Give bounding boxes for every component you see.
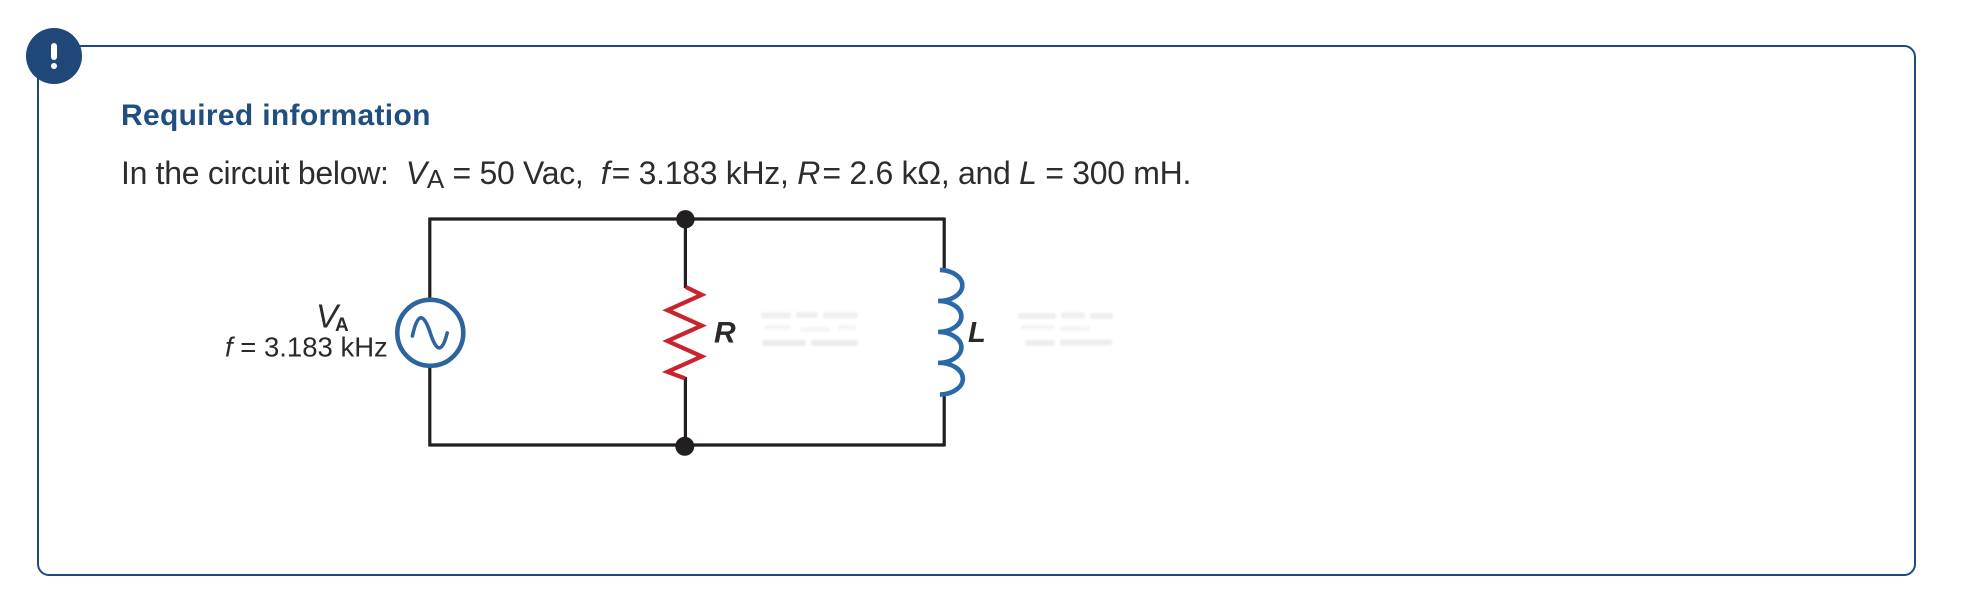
label VA [316, 298, 349, 337]
wire middle upper [684, 219, 687, 288]
problem text [121, 157, 1191, 189]
svg-text:R: R [714, 317, 736, 350]
ghost text right of R middle specks [765, 325, 856, 332]
svg-text:f = 3.183 kHz: f = 3.183 kHz [225, 332, 388, 363]
ghost text right of L row1 [1018, 313, 1113, 320]
ac source sine wave [412, 318, 447, 348]
ghost text right of L row2 [1021, 325, 1090, 331]
node bottom junction [675, 437, 694, 456]
node top junction [676, 210, 694, 228]
wire left lower [428, 367, 431, 447]
ghost text right of R row2 [762, 340, 858, 346]
wire bottom [430, 443, 945, 446]
alert badge [26, 28, 82, 84]
inductor L coil [938, 270, 963, 395]
wire top [430, 217, 945, 220]
ghost text right of L row3 [1025, 340, 1112, 347]
wire left upper [428, 218, 431, 300]
svg-text:L: L [968, 317, 986, 349]
resistor R zigzag [667, 287, 701, 378]
heading [121, 101, 431, 131]
ac source VA circle [397, 300, 463, 366]
ghost text right of R row1 [761, 312, 858, 319]
wire right lower [943, 394, 946, 447]
wire middle lower [684, 377, 687, 445]
wire right upper [943, 218, 946, 272]
